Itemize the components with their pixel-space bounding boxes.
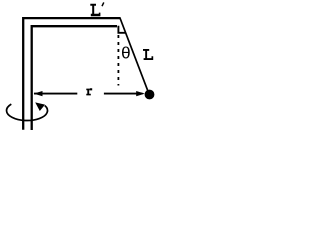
- r dimension line left segment with left arrowhead: [34, 93, 77, 95]
- ball (bob): [145, 90, 155, 100]
- label r: [86, 88, 92, 95]
- rod outer contour (vertical axis + horizontal arm): [23, 18, 120, 130]
- label L (string): [143, 49, 153, 60]
- label L-prime: [90, 4, 100, 16]
- rod end hook at pivot: [118, 26, 126, 33]
- rod inner contour: [32, 26, 117, 130]
- dashed vertical reference line: [117, 35, 119, 86]
- rotation arrow around axis: [7, 104, 48, 120]
- svg-text:θ: θ: [121, 46, 131, 65]
- string L: [120, 18, 149, 95]
- r dimension line right segment with right arrowhead: [104, 93, 143, 95]
